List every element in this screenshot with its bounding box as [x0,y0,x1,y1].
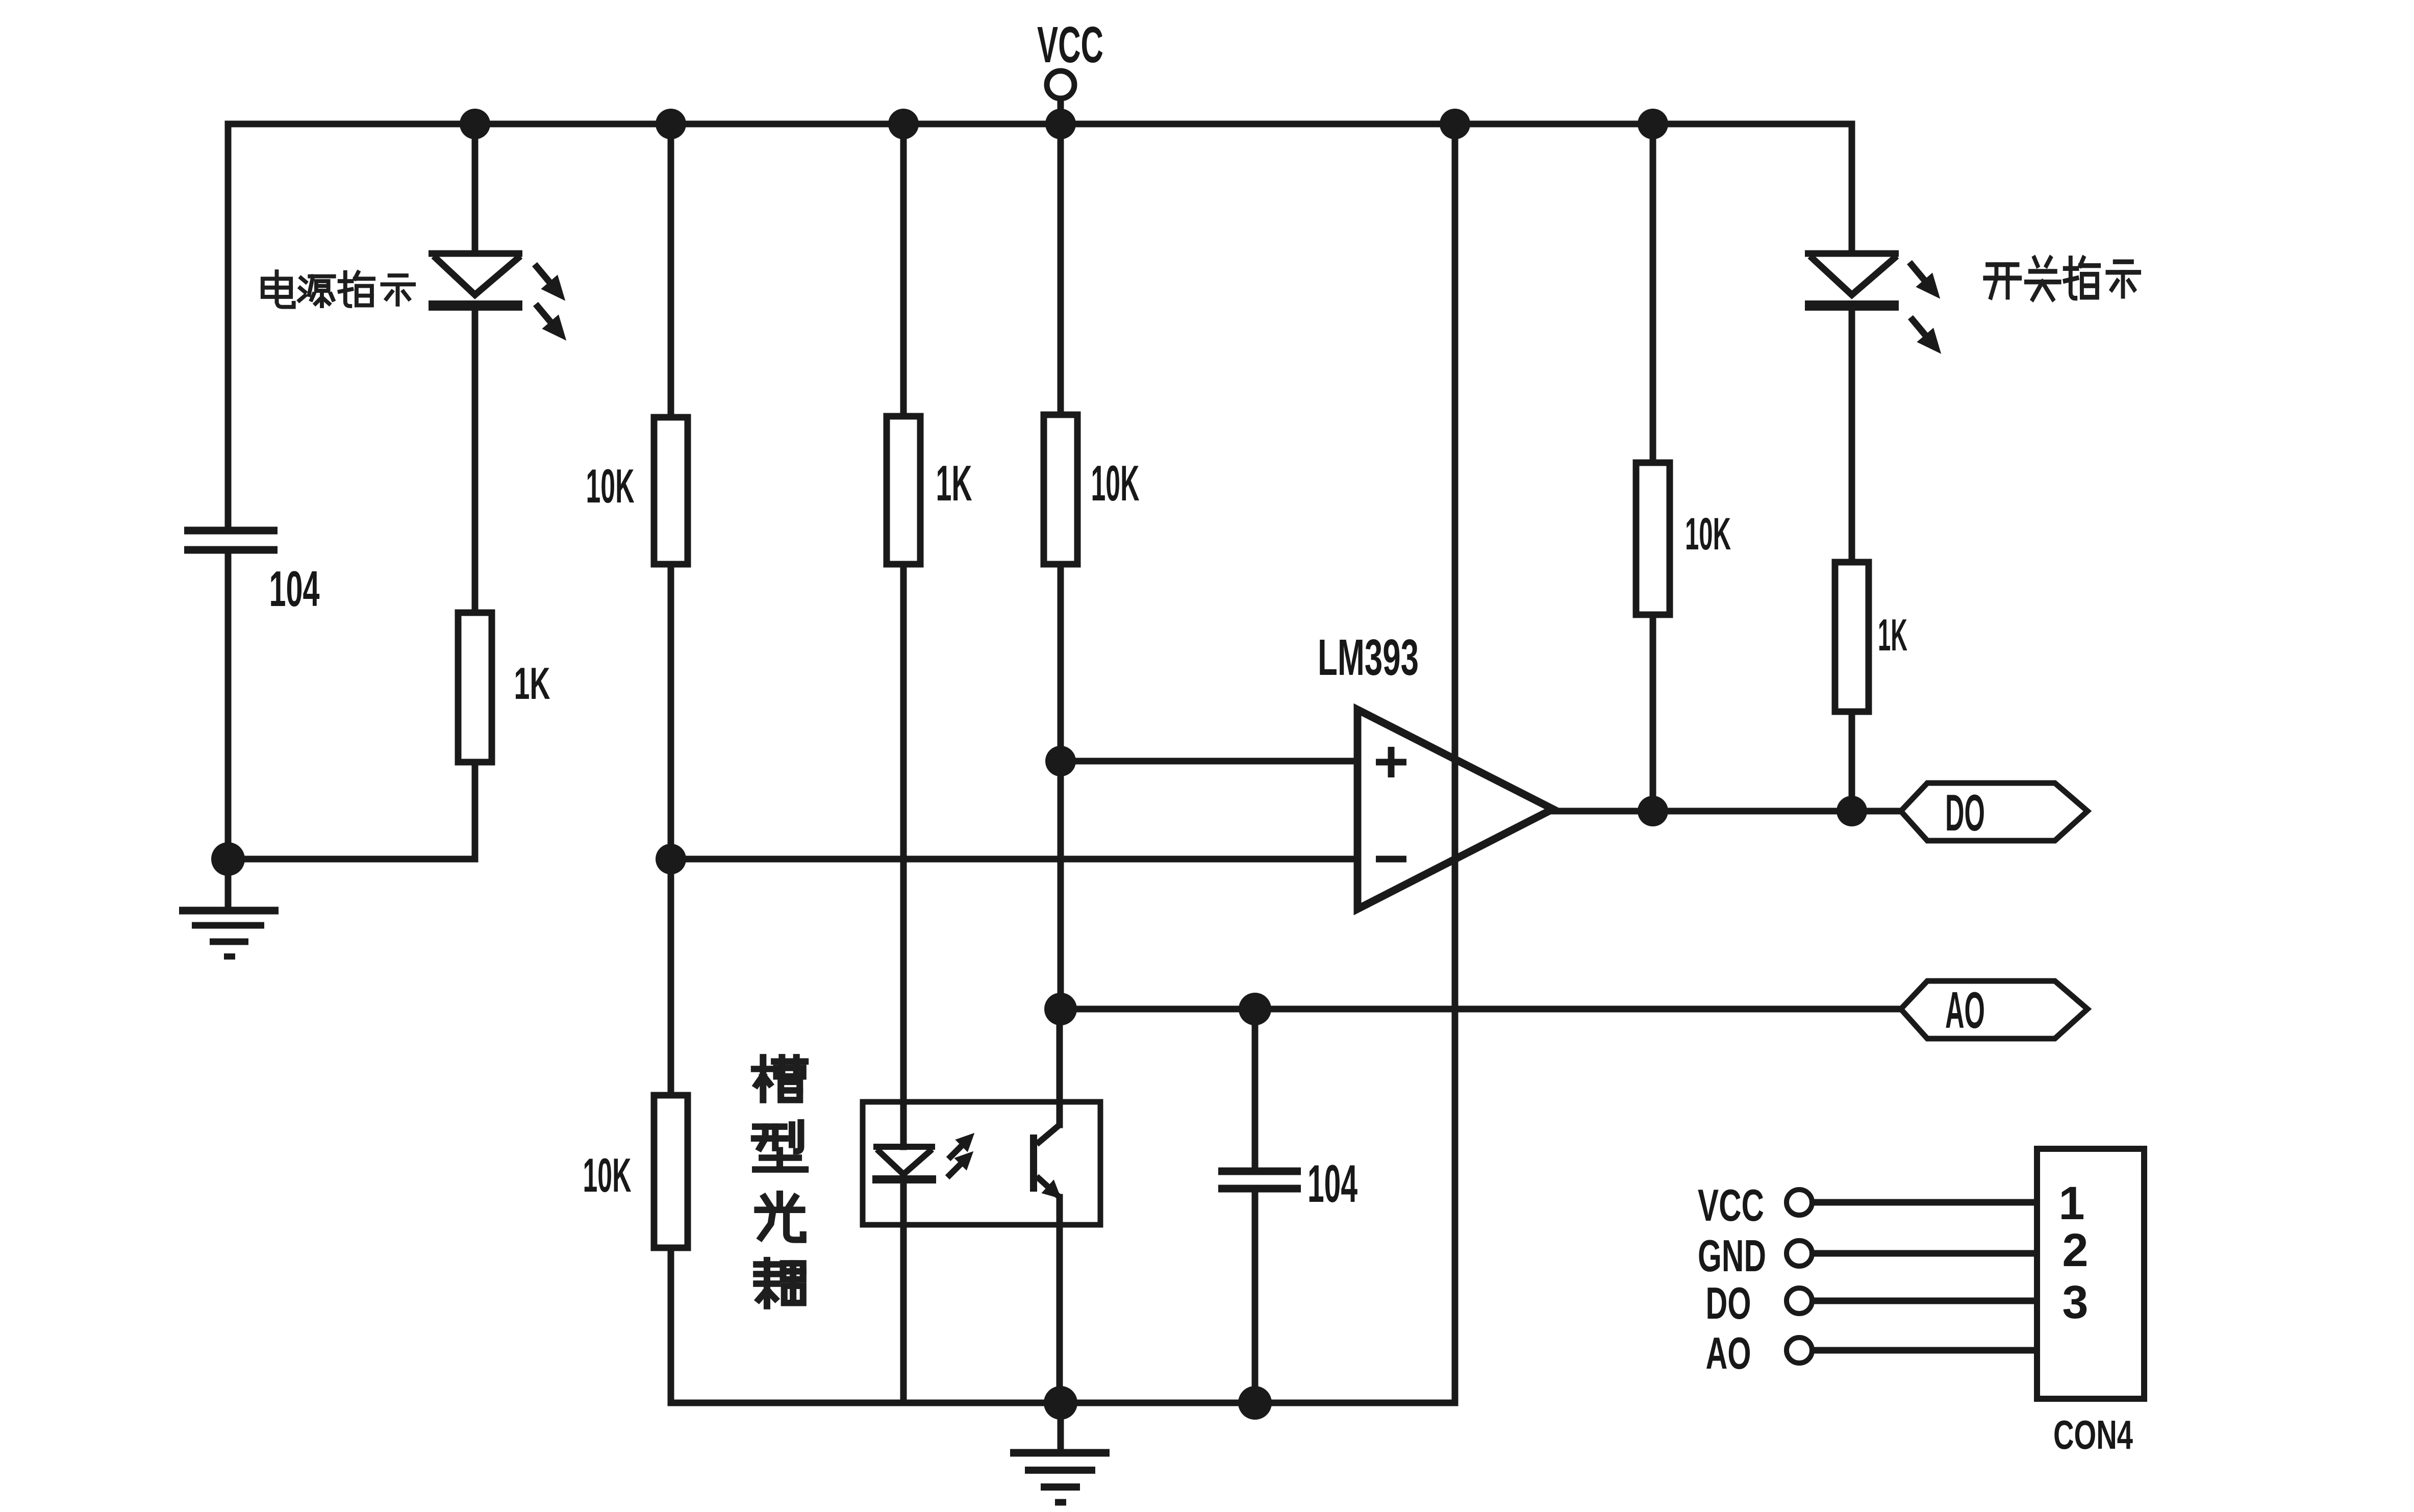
svg-text:2: 2 [2062,1224,2088,1276]
wire opto LED cathode to bottom rail [900,1179,907,1403]
svg-text:DO: DO [1945,785,1985,842]
wire plus input [1061,758,1357,765]
wire ground node stem [1058,1403,1064,1449]
text 电源指示 char 指 [340,272,373,306]
svg-text:3: 3 [2062,1276,2088,1328]
svg-text:10K: 10K [1091,455,1140,511]
wire CON4 pin 2 [1813,1250,2037,1257]
wire R5 column top [1650,124,1656,463]
wire R5 bottom to DO node [1650,615,1656,811]
wire minus node down to R6 [668,859,674,1095]
junction node output / R7 / DO [1837,796,1867,826]
wire R4 bottom to plus node [1058,564,1064,761]
wire C2 bottom to bottom rail [1252,1191,1259,1403]
wire U1 output to DO flag [1553,808,1901,815]
wire C1 bottom to ground node [225,553,232,859]
node DO flag [1901,783,2088,841]
svg-text:LM393: LM393 [1318,629,1419,686]
junction node AO / C2 [1239,993,1271,1025]
svg-text:AO: AO [1945,982,1985,1039]
text 槽型光耦 char 型 [754,1122,805,1169]
text 开关指示 char 关 [2026,258,2059,299]
resistor R4 10K [1044,415,1077,564]
CJK LABELS drawn as strokes [263,258,2139,1306]
svg-text:VCC: VCC [1698,1180,1764,1230]
connector CON4 box [2037,1149,2144,1399]
wire R1 column top [668,124,674,417]
svg-text:VCC: VCC [1037,16,1103,73]
op-amp U1 LM393 comparator triangle [1357,710,1553,909]
wire AO line [1061,1006,1901,1013]
resistor R2 1K [458,613,492,762]
junction top rail / R1 [656,109,686,139]
wire VCC top rail [228,121,1852,128]
text 电源指示 char 示 [382,275,414,305]
wire VCC to bottom rail vertical through U1 [1452,124,1459,1403]
wire bottom rail [671,1400,1455,1406]
junction node AO / collector [1044,993,1077,1025]
junction node bottom rail / ground [1044,1386,1077,1420]
junction node ground left [211,842,245,876]
wire D1 cathode to R2 top [472,308,479,613]
junction top rail / D1 [460,109,490,139]
text 开关指示 char 示 [2107,262,2139,296]
resistor R1 10K [654,417,688,564]
U1 plus input symbol [1376,747,1406,777]
ground symbol left [179,911,279,956]
wire R1 bottom to minus node [668,564,674,859]
connector CON4 pin terminal GND [1787,1241,1812,1266]
junction node minus input [656,844,686,874]
text 槽型光耦 char 耦 [757,1260,803,1306]
wire CON4 pin 3 [1813,1298,2037,1304]
svg-text:DO: DO [1706,1278,1751,1328]
capacitor C2 plates [1218,1171,1301,1189]
LED D1 power indicator [429,254,522,306]
wire R3 column top [900,124,907,417]
optocoupler U2 emitter LED [872,1147,936,1179]
wire minus input [671,856,1357,863]
svg-text:1: 1 [2058,1177,2084,1229]
wire R6 bottom to bottom rail [668,1248,674,1403]
junction top rail / R3 [888,109,919,139]
junction top rail / VCC [1045,109,1076,139]
svg-text:CON4: CON4 [2053,1412,2133,1457]
svg-text:10K: 10K [583,1148,632,1202]
wire R3 bottom to opto LED [900,564,907,1147]
text 槽型光耦 (slot optocoupler) char 槽 [754,1057,805,1100]
LED D1 light arrows [535,264,551,322]
wire node A to ground stem [225,859,232,907]
wire R2 bottom to horizontal [472,762,479,859]
resistor R7 1K [1835,562,1869,712]
LED D2 light arrows [1909,262,1926,336]
optocoupler U2 phototransistor Q1 [1034,1125,1060,1197]
node AO flag [1901,981,2088,1039]
svg-text:10K: 10K [586,459,635,513]
wire CON4 pin 1 [1813,1199,2037,1206]
VCC terminal circle [1047,71,1074,98]
text 开关指示 char 指 [2065,258,2099,298]
junction node plus input [1045,746,1076,776]
wire R7 bottom to DO node [1849,712,1855,811]
capacitor C1 plates [184,531,278,550]
svg-text:104: 104 [1307,1154,1357,1214]
wire ground node to R2 bottom [228,856,475,863]
wire D1 anode drop [472,124,479,254]
wire VCC stem [1058,99,1064,124]
svg-text:1K: 1K [514,658,550,709]
optocoupler U2 light arrows [947,1145,962,1177]
text 槽型光耦 char 光 [758,1194,803,1240]
junction top rail / R5 [1638,109,1668,139]
resistor R5 10K [1636,463,1670,615]
wire D2 cathode to R7 top [1849,308,1855,562]
wire right branch down to D2 [1849,124,1855,254]
svg-text:10K: 10K [1685,508,1731,559]
junction top rail / U1 rail drop [1440,109,1470,139]
text 开关指示 (switch indicator) char 开 [1985,265,2020,297]
wire R4 column top [1058,124,1064,416]
connector CON4 pin terminal AO [1787,1338,1812,1363]
text 电源指示 (power indicator) char 电 [263,271,294,307]
resistor R3 1K [887,416,920,564]
wire left branch down to C1 [225,124,232,527]
svg-text:AO: AO [1706,1328,1751,1378]
LED D2 switch indicator [1805,254,1899,306]
optocoupler U2 box [863,1102,1100,1225]
wire plus node to AO node [1058,761,1064,1009]
wire AO node down to opto collector [1057,1009,1063,1125]
svg-text:104: 104 [269,561,320,617]
U1 minus input symbol [1376,856,1406,863]
svg-text:1K: 1K [1878,610,1907,660]
ground symbol bottom [1010,1453,1110,1502]
svg-text:GND: GND [1698,1230,1766,1281]
wire CON4 pin 4 [1813,1347,2037,1354]
svg-text:1K: 1K [936,455,972,511]
junction node output / R5 [1638,796,1668,826]
wire opto emitter down to ground node [1057,1197,1063,1403]
connector CON4 pin terminal DO [1787,1288,1812,1314]
connector CON4 pin terminal VCC [1787,1190,1812,1215]
resistor R6 10K [654,1095,688,1248]
junction node bottom rail / C2 [1238,1386,1272,1420]
text 电源指示 char 源 [299,276,334,306]
wire C2 branch down [1252,1009,1259,1168]
